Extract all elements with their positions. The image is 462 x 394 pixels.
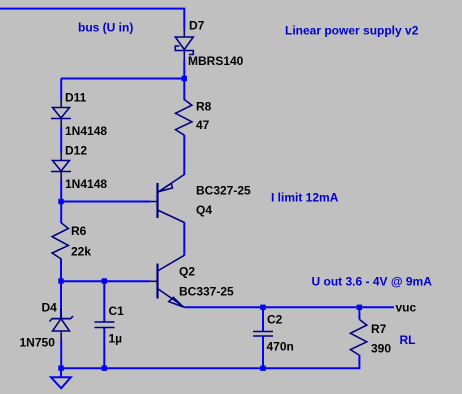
svg-text:1N750: 1N750 — [20, 336, 56, 350]
svg-text:C2: C2 — [267, 313, 283, 327]
svg-text:RL: RL — [400, 333, 416, 347]
svg-text:390: 390 — [371, 342, 391, 356]
svg-text:22k: 22k — [71, 245, 91, 259]
svg-text:Linear power supply v2: Linear power supply v2 — [285, 24, 419, 38]
svg-text:C1: C1 — [109, 304, 125, 318]
svg-text:D4: D4 — [42, 301, 58, 315]
svg-text:vuc: vuc — [396, 301, 417, 315]
svg-text:D7: D7 — [189, 19, 205, 33]
svg-text:BC337-25: BC337-25 — [179, 285, 234, 299]
svg-text:1µ: 1µ — [109, 332, 123, 346]
svg-text:D11: D11 — [65, 91, 87, 105]
svg-text:47: 47 — [196, 118, 210, 132]
svg-text:R7: R7 — [371, 322, 387, 336]
svg-text:BC327-25: BC327-25 — [196, 184, 251, 198]
svg-text:R8: R8 — [196, 100, 212, 114]
svg-text:bus (U in): bus (U in) — [78, 21, 133, 35]
svg-text:470n: 470n — [267, 340, 294, 354]
svg-text:Q4: Q4 — [196, 203, 212, 217]
svg-text:MBRS140: MBRS140 — [188, 54, 244, 68]
svg-text:U out 3.6 - 4V @ 9mA: U out 3.6 - 4V @ 9mA — [312, 275, 433, 289]
svg-text:R6: R6 — [71, 224, 87, 238]
svg-text:Q2: Q2 — [179, 265, 195, 279]
svg-text:D12: D12 — [65, 144, 87, 158]
svg-text:1N4148: 1N4148 — [65, 177, 107, 191]
svg-text:I limit 12mA: I limit 12mA — [271, 191, 339, 205]
svg-text:1N4148: 1N4148 — [65, 124, 107, 138]
